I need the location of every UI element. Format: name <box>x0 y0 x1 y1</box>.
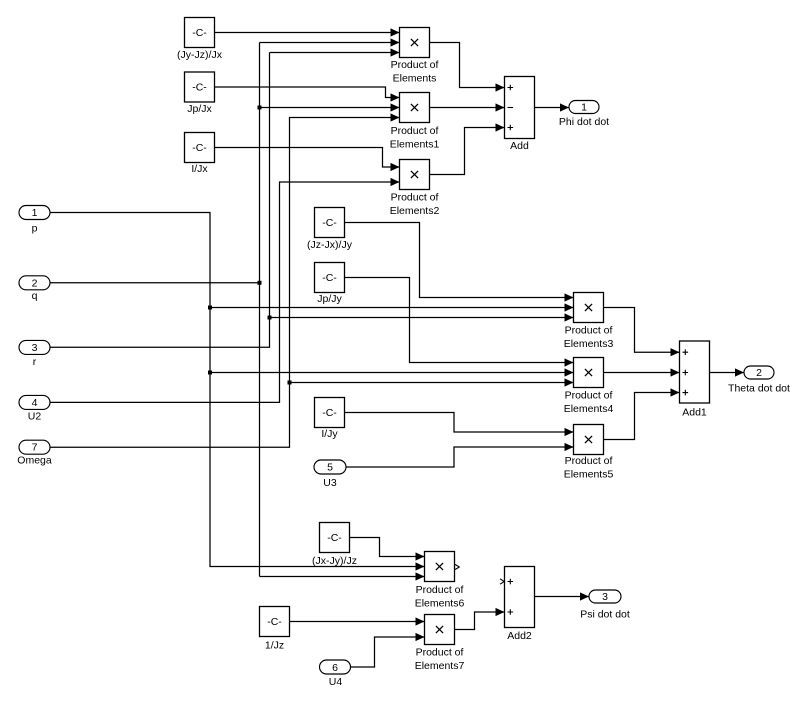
svg-text:Product of: Product of <box>391 192 439 204</box>
svg-text:Product of: Product of <box>416 647 464 659</box>
wire Product to Add <box>430 43 505 92</box>
svg-text:5: 5 <box>327 462 333 474</box>
svg-text:I/Jx: I/Jx <box>191 163 208 175</box>
outport 2 <box>744 366 774 379</box>
svg-text:Elements: Elements <box>393 73 437 85</box>
svg-text:-C-: -C- <box>322 272 337 284</box>
constant Jp/Jx <box>185 72 215 102</box>
svg-text:Product of: Product of <box>565 390 613 402</box>
junction p-Product3 <box>208 306 212 310</box>
svg-text:-C-: -C- <box>192 142 207 154</box>
wire Add to Phi dot dot <box>535 103 570 111</box>
wire C1/Jz to Product7 <box>290 617 425 625</box>
inport 2 <box>19 276 50 290</box>
svg-text:Omega: Omega <box>17 455 52 467</box>
svg-text:U3: U3 <box>323 477 337 489</box>
product Product of Elements5 <box>574 425 604 455</box>
inport 1 <box>19 206 50 220</box>
unconnected input Add2 <box>500 579 504 584</box>
product Product of Elements6 <box>425 552 455 582</box>
svg-text:Elements7: Elements7 <box>415 660 465 672</box>
wire Add1 to Theta dot dot <box>710 368 745 376</box>
wire Omega tap to Product4 <box>290 378 574 386</box>
wire CI/Jy to Product5 <box>345 413 574 437</box>
wire p bus <box>50 213 425 567</box>
outport 1 <box>569 101 599 114</box>
wire q bottom to Product6 <box>260 572 425 580</box>
svg-text:q: q <box>32 290 38 302</box>
svg-text:Jp/Jx: Jp/Jx <box>187 103 212 115</box>
constant 1/Jz <box>260 607 290 637</box>
svg-text:Elements3: Elements3 <box>564 338 614 350</box>
wire CJp/Jx to Product1 <box>215 87 400 102</box>
wire q tap to Product1 <box>260 103 400 111</box>
product Product of Elements3 <box>574 293 604 323</box>
wire Product2 to Add <box>430 123 505 174</box>
constant (Jz-Jx)/Jy <box>315 208 345 238</box>
wire CJp/Jy to Product4 <box>345 278 574 367</box>
wire r tap to Product3 <box>270 313 574 321</box>
constant (Jx-Jy)/Jz <box>320 523 350 553</box>
svg-text:Phi dot dot: Phi dot dot <box>559 116 609 128</box>
svg-text:Elements4: Elements4 <box>564 403 614 415</box>
sum Add2 <box>505 567 535 628</box>
product Product of Elements2 <box>400 160 430 190</box>
inport 5 <box>314 460 346 474</box>
svg-text:-C-: -C- <box>192 82 207 94</box>
svg-text:(Jx-Jy)/Jz: (Jx-Jy)/Jz <box>312 555 357 567</box>
svg-text:7: 7 <box>32 442 38 454</box>
wire p tap to Product3 <box>210 303 574 311</box>
sum Add <box>505 77 535 139</box>
svg-text:Add1: Add1 <box>682 407 707 419</box>
svg-text:Psi dot dot: Psi dot dot <box>580 609 630 621</box>
svg-text:1: 1 <box>32 207 38 219</box>
svg-text:3: 3 <box>602 591 608 603</box>
svg-text:3: 3 <box>32 342 38 354</box>
unconnected output Product6 <box>455 564 459 569</box>
svg-text:Add: Add <box>510 140 529 152</box>
svg-text:r: r <box>33 356 37 368</box>
wire Product7 to Add2 <box>455 608 505 630</box>
inport 4 <box>19 395 50 409</box>
svg-text:-C-: -C- <box>322 217 337 229</box>
svg-text:Elements5: Elements5 <box>564 469 614 481</box>
svg-text:1: 1 <box>581 102 587 114</box>
svg-text:Product of: Product of <box>416 584 464 596</box>
wire Product3 to Add1 <box>604 308 680 357</box>
wire C(Jx-Jy)/Jz to Product6 <box>350 538 425 561</box>
svg-text:Jp/Jy: Jp/Jy <box>317 293 342 305</box>
svg-text:Add2: Add2 <box>507 630 532 642</box>
junction q port <box>258 281 262 285</box>
svg-text:4: 4 <box>32 397 38 409</box>
wire p tap to Product4 <box>210 368 574 376</box>
svg-text:p: p <box>32 223 38 235</box>
outport 3 <box>589 590 621 603</box>
svg-text:-C-: -C- <box>322 407 337 419</box>
junction p-Product4 <box>208 371 212 375</box>
inport 3 <box>19 340 50 354</box>
svg-text:Elements1: Elements1 <box>390 139 440 151</box>
svg-text:U2: U2 <box>28 411 42 423</box>
wire r bus <box>50 53 270 348</box>
product Product of Elements7 <box>425 615 455 645</box>
svg-text:Elements2: Elements2 <box>390 205 440 217</box>
svg-text:Theta dot dot: Theta dot dot <box>728 383 790 395</box>
constant Jp/Jy <box>315 263 345 293</box>
wire Product4 to Add1 <box>604 368 680 376</box>
svg-text:Product of: Product of <box>391 125 439 137</box>
svg-text:Product of: Product of <box>565 325 613 337</box>
inport 7 <box>19 440 50 454</box>
product Product of Elements <box>400 28 430 58</box>
svg-text:Elements6: Elements6 <box>415 598 465 610</box>
wire C(Jy-Jz)/Jx to Product <box>215 28 400 36</box>
svg-text:I/Jy: I/Jy <box>321 428 338 440</box>
constant I/Jy <box>315 398 345 428</box>
svg-text:-C-: -C- <box>267 616 282 628</box>
svg-text:2: 2 <box>756 367 762 379</box>
constant I/Jx <box>185 133 215 163</box>
sum Add1 <box>680 341 710 403</box>
wire U4 to Product7 <box>351 633 425 667</box>
junction q-Product1 <box>258 106 262 110</box>
svg-text:-C-: -C- <box>327 532 342 544</box>
wire Product5 to Add1 <box>604 388 680 439</box>
svg-text:Product of: Product of <box>565 455 613 467</box>
product Product of Elements1 <box>400 93 430 123</box>
svg-text:6: 6 <box>332 662 338 674</box>
wire Add2 to Psi dot dot <box>535 592 590 600</box>
wire q bus <box>50 43 260 577</box>
wire U2 to Product2 <box>50 178 400 403</box>
svg-text:U4: U4 <box>329 676 343 688</box>
wire r top to Product <box>270 48 400 56</box>
svg-text:2: 2 <box>32 277 38 289</box>
junction r-Product3 <box>268 316 272 320</box>
wire Omega to Product1 <box>50 113 400 447</box>
svg-text:(Jy-Jz)/Jx: (Jy-Jz)/Jx <box>177 49 223 61</box>
junction Omega-Product4 <box>288 381 292 385</box>
constant (Jy-Jz)/Jx <box>185 18 215 48</box>
svg-text:Product of: Product of <box>391 59 439 71</box>
svg-text:(Jz-Jx)/Jy: (Jz-Jx)/Jy <box>307 239 353 251</box>
wire C(Jz-Jx)/Jy to Product3 <box>345 223 574 302</box>
wire CI/Jx to Product2 <box>215 148 400 172</box>
svg-text:1/Jz: 1/Jz <box>265 640 284 652</box>
arrow p to Product6 <box>416 562 425 570</box>
svg-text:-C-: -C- <box>192 27 207 39</box>
wire q top to Product <box>260 38 400 46</box>
product Product of Elements4 <box>574 358 604 388</box>
wire U3 to Product5 <box>346 443 574 467</box>
inport 6 <box>320 660 351 674</box>
wire Product1 to Add <box>430 103 505 111</box>
